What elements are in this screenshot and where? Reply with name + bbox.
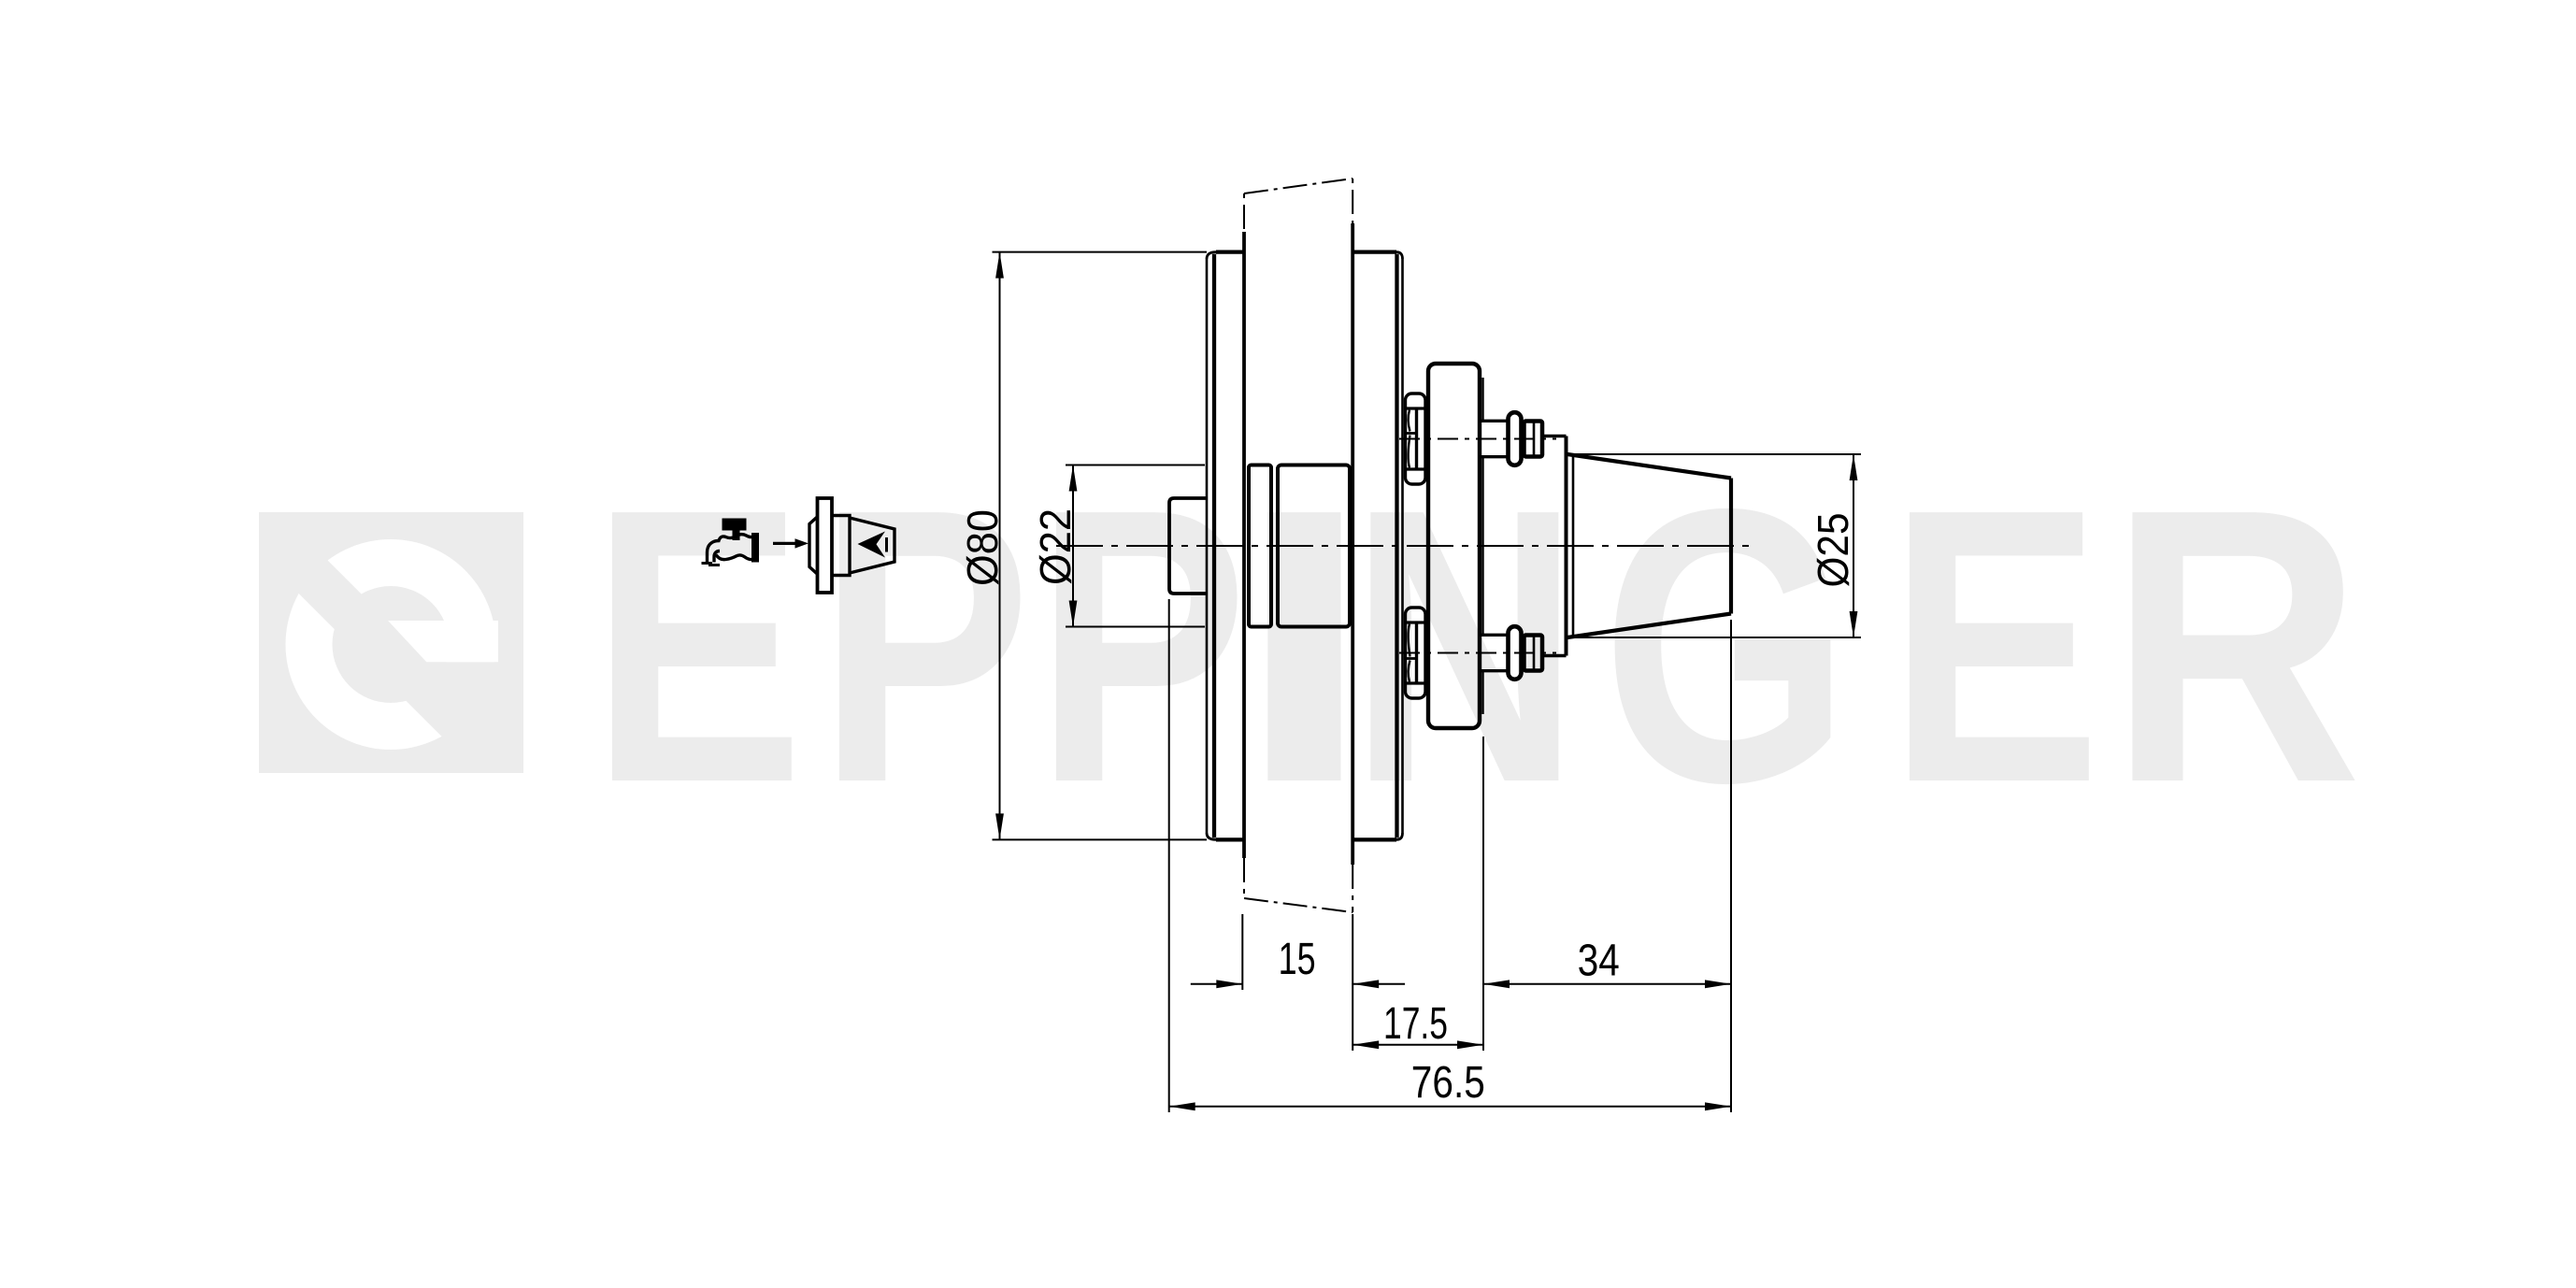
svg-text:G: G xyxy=(1602,428,1851,864)
svg-text:R: R xyxy=(2109,429,2362,865)
svg-text:Ø22: Ø22 xyxy=(1031,508,1080,585)
svg-text:15: 15 xyxy=(1279,935,1316,984)
svg-text:34: 34 xyxy=(1578,937,1620,986)
svg-text:17.5: 17.5 xyxy=(1383,999,1448,1049)
svg-text:E: E xyxy=(1888,428,2101,864)
svg-text:N: N xyxy=(1350,428,1581,864)
svg-text:Ø80: Ø80 xyxy=(958,509,1007,586)
svg-text:Ø25: Ø25 xyxy=(1809,513,1857,588)
svg-text:E: E xyxy=(591,428,804,864)
svg-text:76.5: 76.5 xyxy=(1411,1058,1485,1108)
